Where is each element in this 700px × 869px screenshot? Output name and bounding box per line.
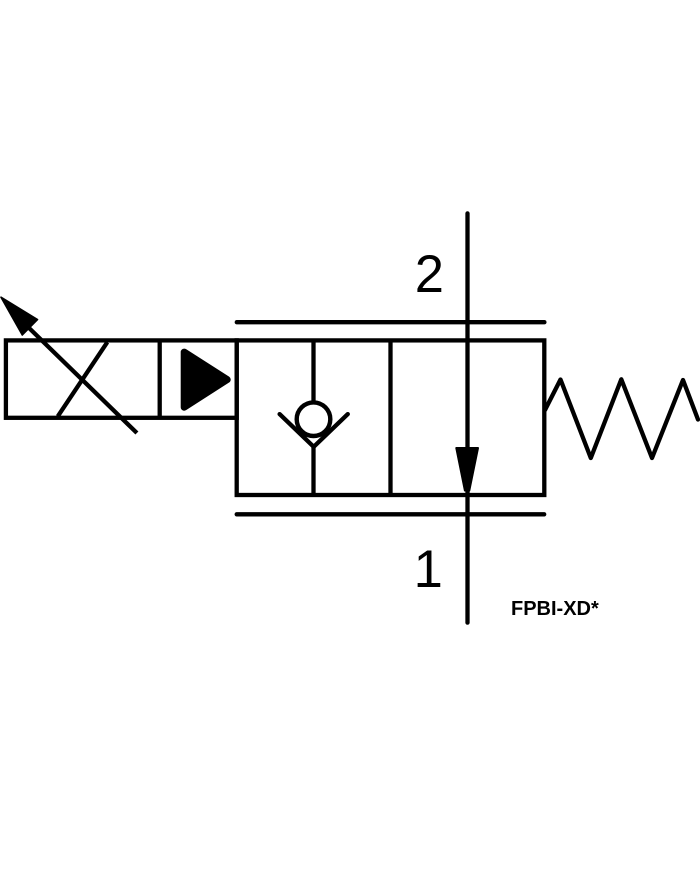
svg-text:2: 2 (415, 245, 444, 304)
svg-text:FPBI-XD*: FPBI-XD* (511, 598, 599, 620)
svg-text:1: 1 (414, 540, 443, 599)
